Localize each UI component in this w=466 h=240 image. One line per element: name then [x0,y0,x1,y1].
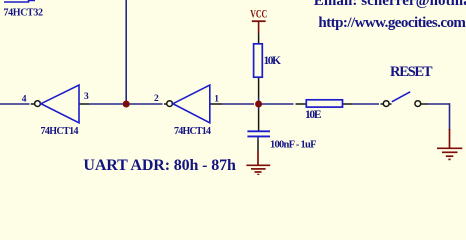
svg-text:Email: scherrer@hotmail.com: Email: scherrer@hotmail.com [314,0,466,9]
svg-text:74HCT32: 74HCT32 [4,7,44,18]
svg-text:74HCT14: 74HCT14 [174,126,211,137]
svg-text:http://www.geocities.com: http://www.geocities.com [318,15,466,31]
svg-text:RESET: RESET [390,64,433,80]
svg-text:VCC: VCC [250,8,267,21]
svg-text:4: 4 [22,95,27,105]
svg-text:2: 2 [154,94,159,104]
svg-text:10E: 10E [305,109,322,121]
svg-text:1: 1 [214,94,219,104]
svg-text:74HCT14: 74HCT14 [41,126,79,137]
svg-text:100nF - 1uF: 100nF - 1uF [270,140,317,151]
svg-text:UART ADR: 80h - 87h: UART ADR: 80h - 87h [83,157,236,174]
svg-text:10K: 10K [264,55,282,67]
svg-text:3: 3 [84,92,89,102]
